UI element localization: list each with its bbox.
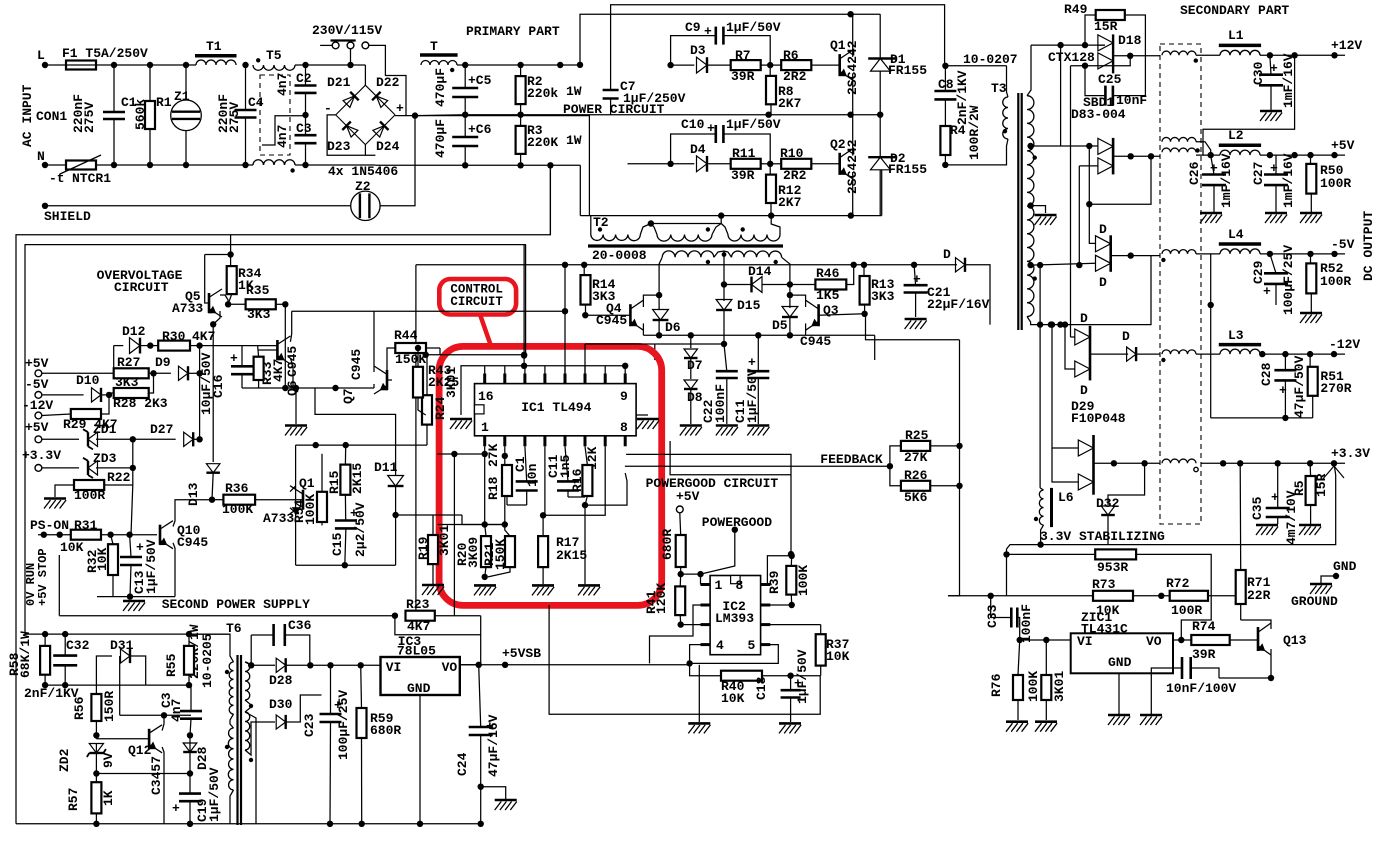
label LM393 xyxy=(715,611,754,626)
svg-text:27K: 27K xyxy=(904,450,928,465)
wire riser top rail xyxy=(577,11,880,68)
choke winding -12V xyxy=(1161,350,1196,362)
ground ZIC1 xyxy=(1108,715,1130,725)
wire y524 bus xyxy=(438,524,505,526)
svg-text:Q7: Q7 xyxy=(341,388,356,404)
svg-text:+: + xyxy=(748,355,756,370)
svg-text:C24: C24 xyxy=(455,752,470,776)
wire 5vsb row xyxy=(460,662,690,668)
ground C24 xyxy=(495,800,517,810)
IC ZIC1 box xyxy=(1071,633,1173,673)
diode D27 xyxy=(133,422,203,446)
resistor R74 xyxy=(1191,619,1258,662)
wire plus rail xyxy=(415,115,589,117)
node C2 C3 junction xyxy=(302,112,308,118)
transformer T6 secondary xyxy=(245,662,253,762)
svg-text:2K15: 2K15 xyxy=(350,463,365,494)
thermistor NTCR1 xyxy=(49,155,111,186)
svg-text:D4: D4 xyxy=(690,142,706,157)
transistor Q3 xyxy=(800,300,865,349)
svg-text:3K01: 3K01 xyxy=(1052,671,1067,702)
choke winding 5V b xyxy=(1162,148,1200,153)
wire feedback line xyxy=(625,463,893,469)
svg-text:F1 T5A/250V: F1 T5A/250V xyxy=(62,46,148,61)
svg-text:470µF: 470µF xyxy=(433,119,448,158)
node R11 R10 xyxy=(767,161,773,167)
resistor R72 xyxy=(1166,576,1240,618)
resistor R3 xyxy=(516,115,582,166)
transformer T2 top winding 1 xyxy=(591,227,641,240)
capacitor C3 xyxy=(275,115,317,165)
svg-text:R22: R22 xyxy=(107,470,131,485)
wire x565 link xyxy=(564,265,566,311)
label +5V xyxy=(1331,138,1355,153)
IC1 bottom pins xyxy=(485,436,626,447)
transistor Q5 xyxy=(172,255,231,318)
svg-text:R24: R24 xyxy=(433,396,448,420)
ground IC1 left xyxy=(450,419,472,429)
wire row311 xyxy=(292,308,569,314)
wire powergood box xyxy=(549,605,820,714)
resistor R31 xyxy=(38,518,157,555)
svg-text:R72: R72 xyxy=(1166,576,1190,591)
svg-text:16: 16 xyxy=(478,389,494,404)
svg-text:150R: 150R xyxy=(102,691,117,722)
ground C35 xyxy=(1256,525,1278,535)
svg-text:T: T xyxy=(430,39,438,54)
svg-text:100K: 100K xyxy=(796,565,811,596)
wire row596 xyxy=(97,593,175,599)
wire 3V3 rail xyxy=(1201,460,1345,466)
svg-text:-12V: -12V xyxy=(22,398,53,413)
svg-text:4: 4 xyxy=(716,638,724,653)
node mid rail left xyxy=(462,112,468,118)
resistor R28 xyxy=(109,373,168,411)
wire Q13 collector xyxy=(1241,620,1271,629)
svg-text:+: + xyxy=(136,540,144,555)
label GROUND xyxy=(1291,594,1338,609)
svg-text:3K09: 3K09 xyxy=(466,537,481,568)
resistor R40 xyxy=(690,663,794,706)
resistor R14 xyxy=(581,265,616,319)
svg-text:D10: D10 xyxy=(76,373,100,388)
wire L6 top xyxy=(1040,488,1043,490)
svg-text:D6: D6 xyxy=(665,320,681,335)
svg-text:C28: C28 xyxy=(1259,362,1274,386)
capacitor C7 xyxy=(603,79,686,115)
svg-text:5K6: 5K6 xyxy=(904,490,928,505)
ground R22 xyxy=(44,499,66,509)
text AC INPUT xyxy=(20,84,35,147)
IC3 box xyxy=(381,657,460,696)
wire C10 right xyxy=(723,134,770,164)
node plus rail start xyxy=(412,112,418,118)
resistor R4 xyxy=(940,123,965,168)
wire T3 primary top xyxy=(942,63,1006,69)
resistor R57 xyxy=(66,774,116,828)
inductor L6 xyxy=(1034,488,1074,527)
svg-text:D: D xyxy=(1122,329,1130,344)
svg-text:C25: C25 xyxy=(1098,72,1122,87)
resistor R55 xyxy=(164,624,202,685)
resistor R44 xyxy=(387,328,440,371)
zener ZD2 xyxy=(57,744,116,777)
svg-text:Q2: Q2 xyxy=(830,137,846,152)
svg-text:R57: R57 xyxy=(66,788,81,811)
diode D6 xyxy=(653,295,681,338)
svg-text:120K: 120K xyxy=(654,583,669,614)
svg-text:CIRCUIT: CIRCUIT xyxy=(114,280,169,295)
svg-text:D: D xyxy=(1080,311,1088,326)
svg-text:100µF/25V: 100µF/25V xyxy=(336,690,351,760)
transformer T3 core xyxy=(1018,93,1021,330)
svg-text:D13: D13 xyxy=(186,482,201,506)
label PS-ON xyxy=(30,518,69,533)
svg-text:2R2: 2R2 xyxy=(783,69,807,84)
ground C22 xyxy=(716,426,738,436)
wire q12 collector xyxy=(161,712,167,731)
svg-text:R55: R55 xyxy=(164,653,179,677)
wire y454 line xyxy=(437,451,488,457)
resistor R75 xyxy=(1041,640,1067,720)
capacitor C27 xyxy=(1251,153,1296,212)
wire x565 down xyxy=(564,311,566,373)
ground C21 xyxy=(905,319,927,329)
ground C34 xyxy=(1140,715,1162,725)
diode D15 xyxy=(716,281,761,347)
wire zd2 d28 link xyxy=(96,773,190,775)
svg-text:D24: D24 xyxy=(376,139,400,154)
IC1 top pins xyxy=(485,374,626,384)
svg-text:+5V: +5V xyxy=(1331,138,1355,153)
svg-text:220k: 220k xyxy=(527,86,558,101)
svg-text:C27: C27 xyxy=(1251,162,1266,185)
resistor R49 xyxy=(1064,2,1145,96)
wire row388 xyxy=(242,385,374,391)
capacitor C2 xyxy=(275,65,317,115)
wire q12 emitter xyxy=(162,747,164,824)
svg-text:D30: D30 xyxy=(269,697,293,712)
svg-text:R4: R4 xyxy=(950,123,966,138)
resistor R71 xyxy=(1236,463,1271,620)
wire -12V stack in2 xyxy=(1062,321,1075,369)
transistor Q1b xyxy=(263,476,315,526)
wire bottom power rail xyxy=(580,170,881,219)
svg-text:1µF/50V: 1µF/50V xyxy=(207,767,222,822)
diode D10 xyxy=(42,373,112,402)
wire Q2 emitter xyxy=(848,172,854,219)
svg-text:SECOND POWER SUPPLY: SECOND POWER SUPPLY xyxy=(162,597,310,612)
svg-text:AC INPUT: AC INPUT xyxy=(20,84,35,147)
capacitor C35 xyxy=(1250,463,1299,545)
label CIRCUIT2 xyxy=(114,280,169,295)
IC1 box xyxy=(475,384,637,436)
capacitor C1 xyxy=(513,446,540,505)
wire C34 q13 link xyxy=(1219,677,1271,679)
diode D12 xyxy=(114,324,154,354)
svg-text:C10: C10 xyxy=(681,117,705,132)
terminal +3.3V xyxy=(35,465,42,472)
label CON1 xyxy=(36,109,67,124)
wire row685 xyxy=(45,684,146,686)
wire t6 prim top xyxy=(189,634,234,662)
wire Q1b collector xyxy=(290,508,296,513)
svg-text:A733: A733 xyxy=(172,301,203,316)
label GND xyxy=(1333,559,1357,574)
node N terminal xyxy=(37,149,48,168)
wire L6 bottom xyxy=(1037,525,1043,548)
label ZIC1 xyxy=(1081,610,1112,625)
label -12V xyxy=(1329,337,1360,352)
label +5V a xyxy=(25,356,49,371)
wire pin1 node xyxy=(681,571,704,585)
wire R35 down xyxy=(284,304,286,388)
svg-text:D23: D23 xyxy=(327,139,351,154)
wire r37 r40 xyxy=(791,675,821,677)
svg-text:+: + xyxy=(396,101,404,116)
svg-text:-12V: -12V xyxy=(1329,337,1360,352)
node powergood out xyxy=(732,527,738,533)
ground row382 xyxy=(285,426,307,436)
wire ic3 out xyxy=(460,664,481,666)
diode D11 xyxy=(315,388,404,565)
svg-text:CON1: CON1 xyxy=(36,109,67,124)
svg-text:150K: 150K xyxy=(395,352,426,367)
wire d31 to r55 xyxy=(146,682,193,688)
svg-text:1µF/50V: 1µF/50V xyxy=(144,539,159,594)
svg-text:-5V: -5V xyxy=(1331,237,1355,252)
terminal +5V b xyxy=(35,436,42,443)
label 4x 1N5406 xyxy=(328,164,398,179)
wire C10 left xyxy=(671,134,716,164)
wire Q10 collector xyxy=(173,500,212,527)
wire pin3 r41 xyxy=(681,624,701,626)
svg-text:+5V: +5V xyxy=(676,489,700,504)
diode D32 xyxy=(1096,463,1145,544)
svg-text:T5: T5 xyxy=(266,48,282,63)
svg-text:1µF/50V: 1µF/50V xyxy=(795,649,810,704)
wire CTX down1 xyxy=(1060,45,1062,146)
wire rail265 to D xyxy=(914,247,990,325)
transformer T3 primary xyxy=(945,66,1008,165)
transistor Q4 xyxy=(585,300,643,330)
capacitor C25 xyxy=(1082,62,1148,108)
label T3 xyxy=(991,81,1007,96)
resistor R25 xyxy=(890,428,960,466)
inductor L4 xyxy=(1219,227,1261,254)
svg-text:2K7: 2K7 xyxy=(778,195,801,210)
diode D29 xyxy=(1071,399,1126,495)
wire bottom rail xyxy=(16,821,484,827)
svg-text:NTCR1: NTCR1 xyxy=(72,171,111,186)
svg-text:R76: R76 xyxy=(989,673,1004,697)
svg-text:L1: L1 xyxy=(1228,28,1244,43)
svg-text:R49: R49 xyxy=(1064,2,1088,17)
diode D1 xyxy=(868,14,927,118)
wire x585 up xyxy=(585,344,655,374)
svg-text:20-0008: 20-0008 xyxy=(592,248,647,263)
capacitor C32 xyxy=(24,634,90,701)
wire t6 prim mid xyxy=(230,714,234,728)
resistor R18 xyxy=(486,443,527,505)
resistor R7 xyxy=(731,48,771,84)
svg-text:D: D xyxy=(1099,275,1107,290)
wire t6 prim bot xyxy=(230,790,234,824)
wire R25 right down xyxy=(948,340,963,596)
wire powergood inner loop xyxy=(670,441,791,475)
node L terminal xyxy=(37,48,48,68)
svg-text:F10P048: F10P048 xyxy=(1071,411,1126,426)
svg-text:10nF: 10nF xyxy=(1116,93,1147,108)
wire CTX lower xyxy=(1071,56,1131,66)
svg-text:IC1 TL494: IC1 TL494 xyxy=(521,400,591,415)
choke winding -5V xyxy=(1161,250,1196,262)
svg-text:SHIELD: SHIELD xyxy=(44,209,91,224)
label +3.3V t xyxy=(22,448,61,463)
wire D29 in1 xyxy=(1049,321,1079,448)
svg-text:ZD3: ZD3 xyxy=(93,451,117,466)
svg-text:D3: D3 xyxy=(690,43,706,58)
ground R19 xyxy=(422,585,444,595)
wire Q4 emitter xyxy=(642,323,644,335)
node -5V return xyxy=(1208,254,1214,418)
svg-text:1mF/16V: 1mF/16V xyxy=(1219,153,1234,208)
svg-text:C29: C29 xyxy=(1251,260,1266,284)
svg-text:D: D xyxy=(1099,222,1107,237)
label pg pin8 xyxy=(736,578,744,593)
wire Q4 collector xyxy=(643,292,662,307)
svg-text:10-0207: 10-0207 xyxy=(963,52,1018,67)
diode stack -12V xyxy=(1075,311,1090,398)
diode D2 xyxy=(868,115,927,216)
svg-text:L3: L3 xyxy=(1228,328,1244,343)
wire C2C3 tap xyxy=(262,116,306,145)
resistor R35 xyxy=(228,283,288,322)
svg-text:PS-ON: PS-ON xyxy=(30,518,69,533)
wire mid rail 2 xyxy=(610,114,880,116)
svg-text:C32: C32 xyxy=(66,638,90,653)
wire T2 bot left xyxy=(659,257,662,295)
transistor Q6 xyxy=(258,336,300,396)
resistor R24 xyxy=(422,355,459,445)
wire emitter rail xyxy=(643,332,874,338)
wire pin4 wire xyxy=(686,645,700,667)
diode D13 xyxy=(186,453,220,506)
svg-text:PRIMARY PART: PRIMARY PART xyxy=(466,24,560,39)
resistor R43 xyxy=(413,345,459,415)
svg-text:10-0205: 10-0205 xyxy=(200,633,215,688)
choke winding 3V3 xyxy=(1162,459,1198,472)
wire D29 out xyxy=(1094,460,1161,466)
fuse F1 xyxy=(62,46,148,70)
label IC3 xyxy=(398,634,422,649)
svg-text:C945: C945 xyxy=(177,535,208,550)
svg-text:R74: R74 xyxy=(1192,619,1216,634)
wire tap1 xyxy=(1027,143,1098,149)
resistor R29 xyxy=(42,395,118,432)
diode D22 xyxy=(365,75,399,115)
label D lower xyxy=(1099,275,1107,290)
svg-text:LM393: LM393 xyxy=(715,611,754,626)
wire Q3 emitter xyxy=(805,323,807,335)
wire Z2 right xyxy=(380,116,415,206)
resistor R16 xyxy=(570,446,600,508)
svg-text:SECONDARY PART: SECONDARY PART xyxy=(1180,3,1289,18)
wire pin1 down xyxy=(482,446,488,527)
label +5VSB xyxy=(502,646,541,661)
label 3.3V STABILIZING xyxy=(1040,529,1165,544)
switch 230V/115V xyxy=(312,23,382,49)
label CTX128 xyxy=(1048,50,1095,65)
wire gnd382 xyxy=(295,388,297,424)
svg-text:Q13: Q13 xyxy=(1283,633,1307,648)
resistor R22 xyxy=(55,470,133,503)
svg-text:VO: VO xyxy=(1146,634,1162,649)
wire row515 xyxy=(392,512,504,525)
svg-text:C15: C15 xyxy=(330,532,345,556)
label -12V xyxy=(22,398,53,413)
ground R75 xyxy=(1035,722,1057,732)
capacitor C21 xyxy=(904,265,990,317)
wire t6 sec mid xyxy=(245,700,250,712)
varistor Z2 xyxy=(351,179,380,221)
ground C27 xyxy=(1265,213,1287,223)
transistor Q12 xyxy=(128,725,164,795)
svg-text:ZD1: ZD1 xyxy=(93,422,117,437)
wire 5V rail xyxy=(1196,152,1345,158)
label POWER CIRCUIT xyxy=(563,102,665,117)
capacitor C22 xyxy=(701,344,738,424)
label SECONDARY PART xyxy=(1180,3,1289,18)
wire bridge top in xyxy=(364,65,366,85)
svg-text:-5V: -5V xyxy=(25,377,49,392)
svg-text:Q1: Q1 xyxy=(299,476,315,491)
wire top rail primary xyxy=(457,62,580,68)
ground C30 xyxy=(1260,111,1282,121)
capacitor C11b xyxy=(733,335,769,424)
ground D8 xyxy=(680,426,702,436)
diode stack D lower xyxy=(1096,235,1111,271)
inductor T1 xyxy=(195,39,237,65)
svg-text:2K7: 2K7 xyxy=(778,96,801,111)
wire pin7 r39 xyxy=(761,604,792,606)
resistor R46 xyxy=(815,265,853,303)
resistor R26 xyxy=(890,466,960,505)
capacitor C9 xyxy=(685,20,781,45)
wire N rail right xyxy=(375,162,580,168)
svg-text:4K7: 4K7 xyxy=(192,329,215,344)
label T2 xyxy=(593,215,609,230)
terminal +5V a xyxy=(35,370,42,377)
transistor Q7 xyxy=(341,349,387,404)
node D3 anode xyxy=(667,62,673,68)
ground R76 xyxy=(1006,722,1028,732)
wire L2 xyxy=(96,64,196,66)
choke winding 5V a xyxy=(1162,137,1196,141)
resistor R27 xyxy=(42,355,157,390)
svg-text:C18: C18 xyxy=(754,676,769,700)
wire Dstack out xyxy=(1111,252,1161,258)
wire top rail to bridge xyxy=(295,62,365,68)
wire -12V return xyxy=(1211,415,1313,421)
svg-text:L: L xyxy=(37,48,45,63)
svg-text:C3: C3 xyxy=(296,121,312,136)
svg-text:8: 8 xyxy=(736,578,744,593)
resistor R11 xyxy=(731,146,771,183)
ground C11b xyxy=(747,426,769,436)
wire x524 up xyxy=(521,245,527,366)
svg-text:4n7: 4n7 xyxy=(275,125,290,148)
